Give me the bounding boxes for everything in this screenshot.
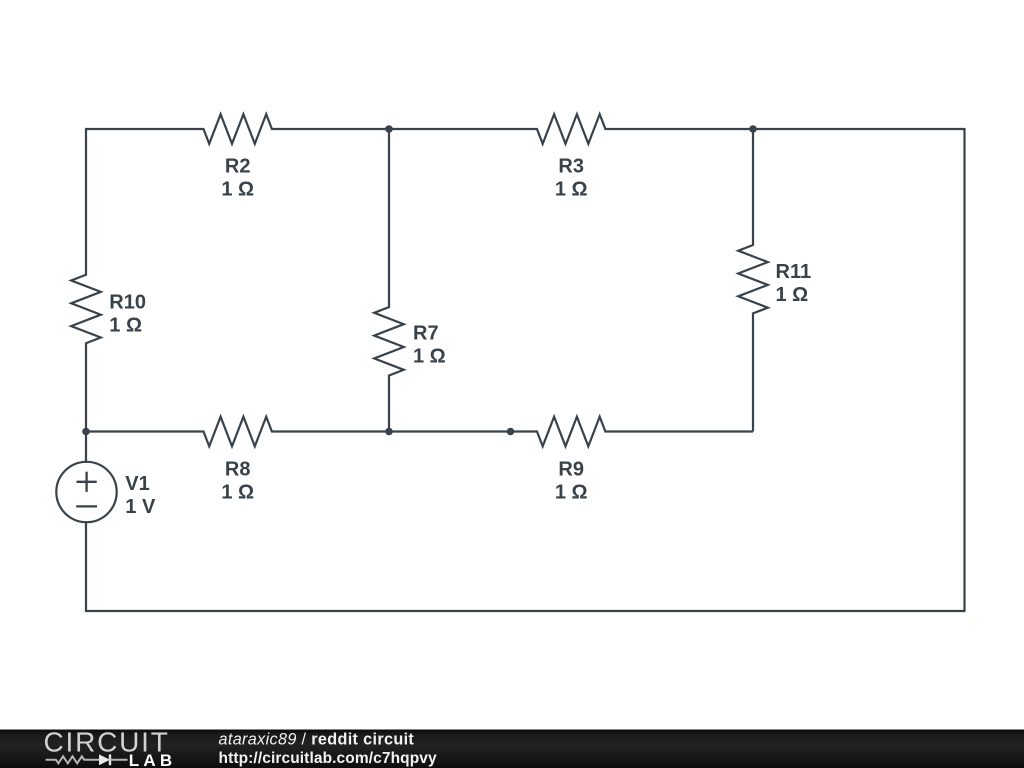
- svg-text:1 Ω: 1 Ω: [555, 178, 588, 200]
- svg-text:R10: R10: [109, 291, 146, 313]
- svg-text:V1: V1: [125, 473, 149, 495]
- svg-text:R9: R9: [558, 458, 584, 480]
- svg-text:R7: R7: [413, 322, 439, 344]
- svg-text:R2: R2: [225, 155, 251, 177]
- svg-text:1 Ω: 1 Ω: [109, 314, 142, 336]
- svg-text:1 Ω: 1 Ω: [221, 178, 254, 200]
- svg-text:R11: R11: [776, 261, 812, 283]
- svg-text:1 V: 1 V: [125, 496, 156, 518]
- svg-text:1 Ω: 1 Ω: [555, 481, 588, 503]
- svg-text:R3: R3: [558, 155, 584, 177]
- svg-text:1 Ω: 1 Ω: [221, 481, 254, 503]
- svg-text:ataraxic89 / reddit circuit: ataraxic89 / reddit circuit: [219, 731, 415, 749]
- svg-text:http://circuitlab.com/c7hqpvy: http://circuitlab.com/c7hqpvy: [219, 750, 437, 767]
- svg-text:R8: R8: [225, 458, 251, 480]
- svg-text:LAB: LAB: [129, 751, 177, 768]
- svg-text:1 Ω: 1 Ω: [776, 284, 809, 306]
- svg-text:1 Ω: 1 Ω: [413, 345, 446, 367]
